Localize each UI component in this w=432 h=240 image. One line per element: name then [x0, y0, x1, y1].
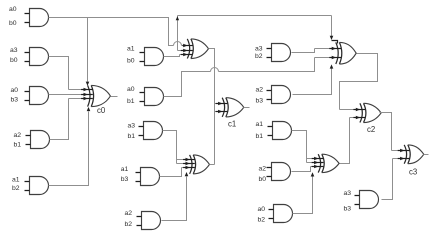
AND gate U8 (a3,b1) [127, 122, 162, 141]
xor gate X1 [187, 39, 208, 59]
svg-text:b1: b1 [127, 133, 135, 140]
wire a2b0 to X4 [292, 167, 311, 172]
xor gate c1 [222, 98, 244, 117]
AND gate U15 (a0,b2) [257, 205, 292, 224]
wire a3b0 to c0 [49, 57, 69, 90]
AND gate U11 (a3,b2) [255, 44, 291, 62]
svg-text:a3: a3 [10, 47, 18, 54]
svg-text:c3: c3 [409, 167, 417, 176]
wire a0b1 long net to X3 [164, 72, 211, 97]
svg-text:b3: b3 [121, 176, 129, 183]
wire c1 out [244, 107, 250, 109]
svg-text:a1: a1 [127, 45, 135, 52]
svg-text:b1: b1 [255, 133, 263, 140]
wire a0b2 to X4 bottom [293, 177, 313, 214]
svg-text:c1: c1 [228, 119, 236, 128]
wire a2b1 to c0 [50, 99, 69, 140]
AND gate U7 (a0,b1) [127, 86, 164, 105]
AND gate U16 (a3,b3) [343, 190, 378, 213]
svg-text:b1: b1 [127, 98, 135, 105]
wire a1b2 to c0 bottom [49, 112, 89, 186]
svg-text:b2: b2 [124, 221, 132, 228]
svg-text:a1: a1 [12, 177, 20, 184]
wire rail a0b0 [49, 18, 174, 46]
wire a0b3 to c0 [49, 94, 82, 96]
wire a1b0 to X1 [164, 55, 180, 57]
wire X4 out to c2 [340, 118, 350, 164]
xor gate c2 [360, 103, 381, 122]
wire X2 out [210, 164, 215, 166]
svg-text:a3: a3 [127, 123, 135, 130]
svg-text:a1: a1 [255, 121, 263, 128]
AND gate U5 (a1,b2) [12, 177, 49, 195]
svg-text:a0: a0 [127, 86, 135, 93]
AND gate U6 (a1,b0) [127, 45, 164, 65]
svg-text:a2: a2 [13, 132, 21, 139]
svg-text:a2: a2 [258, 165, 266, 172]
wire a3b3 to c3 [382, 159, 393, 200]
xor gate c3 [404, 145, 424, 164]
wire a3b1 to X2 [163, 131, 177, 164]
wire a3b2 to X3 [292, 49, 315, 53]
wire c0 output [111, 96, 118, 98]
svg-text:a3: a3 [343, 190, 351, 197]
AND gate U14 (a2,b0) [258, 163, 290, 183]
wire a1b1 to X4 [292, 131, 307, 163]
svg-text:b0: b0 [10, 57, 18, 64]
xor gate X3 [336, 42, 356, 64]
wire c0 top input [87, 18, 89, 82]
AND gate U4 (a2,b1) [13, 131, 49, 149]
AND gate U10 (a2,b2) [124, 210, 160, 229]
AND gate U12 (a2,b3) [255, 86, 290, 105]
AND gate U3 (a0,b3) [10, 87, 48, 105]
wire c3 out [424, 154, 429, 156]
svg-text:b0: b0 [9, 20, 17, 27]
wire rail2 to X3 top [178, 15, 332, 17]
wire a1b3 to X2 [160, 168, 182, 177]
xor gate c0 [88, 85, 111, 106]
AND gate U1 (a0,b0) [9, 6, 49, 27]
svg-text:a0: a0 [9, 6, 17, 13]
svg-text:c2: c2 [367, 125, 375, 134]
wire X3 out to c2 [340, 54, 378, 110]
svg-text:b3: b3 [255, 98, 263, 105]
wire c2 out to c3 [380, 113, 392, 151]
wire a2b3 to X3 bottom [293, 69, 332, 95]
AND gate U2 (a3,b0) [10, 47, 49, 66]
xor gate X4 [318, 154, 339, 172]
svg-text:b0: b0 [258, 176, 266, 183]
svg-text:b2: b2 [12, 185, 20, 192]
svg-text:a2: a2 [124, 210, 132, 217]
svg-text:b2: b2 [255, 53, 263, 60]
svg-text:c0: c0 [97, 106, 106, 115]
svg-text:b3: b3 [10, 97, 18, 104]
svg-text:a2: a2 [255, 87, 263, 94]
svg-text:a1: a1 [121, 166, 129, 173]
svg-text:b2: b2 [257, 217, 265, 224]
xor gate X2 [190, 155, 210, 174]
svg-text:a0: a0 [257, 206, 265, 213]
svg-text:b1: b1 [13, 142, 21, 149]
svg-text:a3: a3 [255, 45, 263, 52]
AND gate U13 (a1,b1) [255, 121, 291, 140]
svg-text:b0: b0 [127, 57, 135, 64]
AND gate U9 (a1,b3) [121, 166, 160, 186]
wire a2b2 to X2 bottom [162, 177, 187, 221]
svg-text:b3: b3 [343, 206, 351, 213]
svg-text:a0: a0 [10, 87, 18, 94]
wire X1 out trunk to c1 [209, 49, 215, 165]
